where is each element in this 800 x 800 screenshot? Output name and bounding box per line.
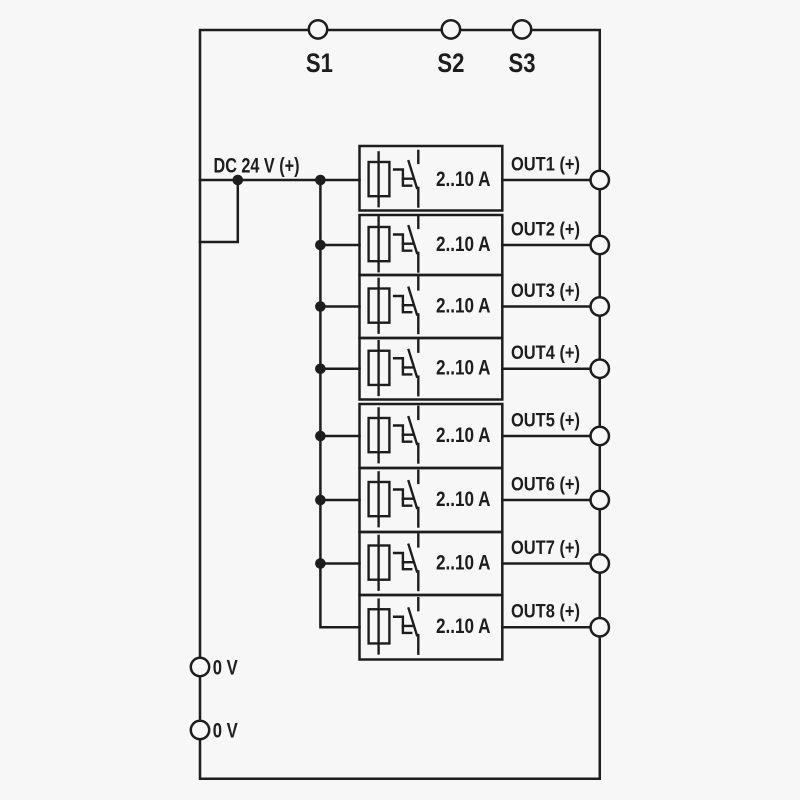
svg-text:OUT3 (+): OUT3 (+) bbox=[511, 281, 580, 302]
svg-text:2..10 A: 2..10 A bbox=[436, 233, 491, 256]
svg-text:S2: S2 bbox=[437, 48, 464, 78]
svg-text:2..10 A: 2..10 A bbox=[436, 424, 491, 447]
svg-text:2..10 A: 2..10 A bbox=[436, 551, 491, 574]
svg-text:2..10 A: 2..10 A bbox=[436, 488, 491, 511]
svg-text:DC 24 V (+): DC 24 V (+) bbox=[214, 155, 300, 178]
svg-text:0 V: 0 V bbox=[213, 720, 238, 743]
svg-text:2..10 A: 2..10 A bbox=[436, 168, 491, 191]
svg-text:2..10 A: 2..10 A bbox=[436, 294, 491, 317]
svg-text:OUT2 (+): OUT2 (+) bbox=[511, 219, 580, 240]
svg-text:OUT5 (+): OUT5 (+) bbox=[511, 410, 580, 431]
svg-text:OUT8 (+): OUT8 (+) bbox=[511, 602, 580, 623]
svg-text:OUT7 (+): OUT7 (+) bbox=[511, 538, 580, 559]
svg-text:OUT4 (+): OUT4 (+) bbox=[511, 343, 580, 364]
svg-text:OUT1 (+): OUT1 (+) bbox=[511, 154, 580, 175]
svg-text:S3: S3 bbox=[509, 48, 536, 78]
svg-text:2..10 A: 2..10 A bbox=[436, 357, 491, 380]
svg-text:2..10 A: 2..10 A bbox=[436, 615, 491, 638]
svg-text:OUT6 (+): OUT6 (+) bbox=[511, 474, 580, 495]
svg-text:0 V: 0 V bbox=[213, 657, 238, 680]
svg-text:S1: S1 bbox=[306, 48, 333, 78]
